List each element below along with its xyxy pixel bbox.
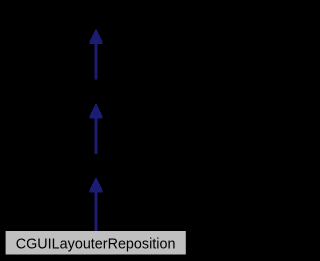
inheritance edge 1 (top): stem <box>95 44 98 80</box>
class inheritance diagram for CGUILayouterReposition <box>0 0 192 261</box>
inheritance edge 3 (bottom): arrowhead <box>89 178 102 193</box>
node box CGUILayouterReposition <box>6 231 186 255</box>
inheritance edge 3 (bottom): stem <box>95 192 98 231</box>
inheritance edge 2 (middle): arrowhead <box>89 104 102 119</box>
svg-text:CGUILayouterReposition: CGUILayouterReposition <box>16 236 176 252</box>
inheritance edge 2 (middle): stem <box>95 118 98 154</box>
inheritance edge 1 (top): arrowhead <box>89 30 102 45</box>
